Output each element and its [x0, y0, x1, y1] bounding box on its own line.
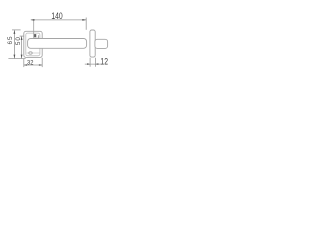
svg-text:140: 140	[51, 11, 63, 21]
svg-text:12: 12	[100, 56, 108, 66]
svg-text:50: 50	[15, 36, 22, 45]
svg-text:32: 32	[27, 59, 34, 66]
svg-text:65: 65	[7, 36, 14, 45]
